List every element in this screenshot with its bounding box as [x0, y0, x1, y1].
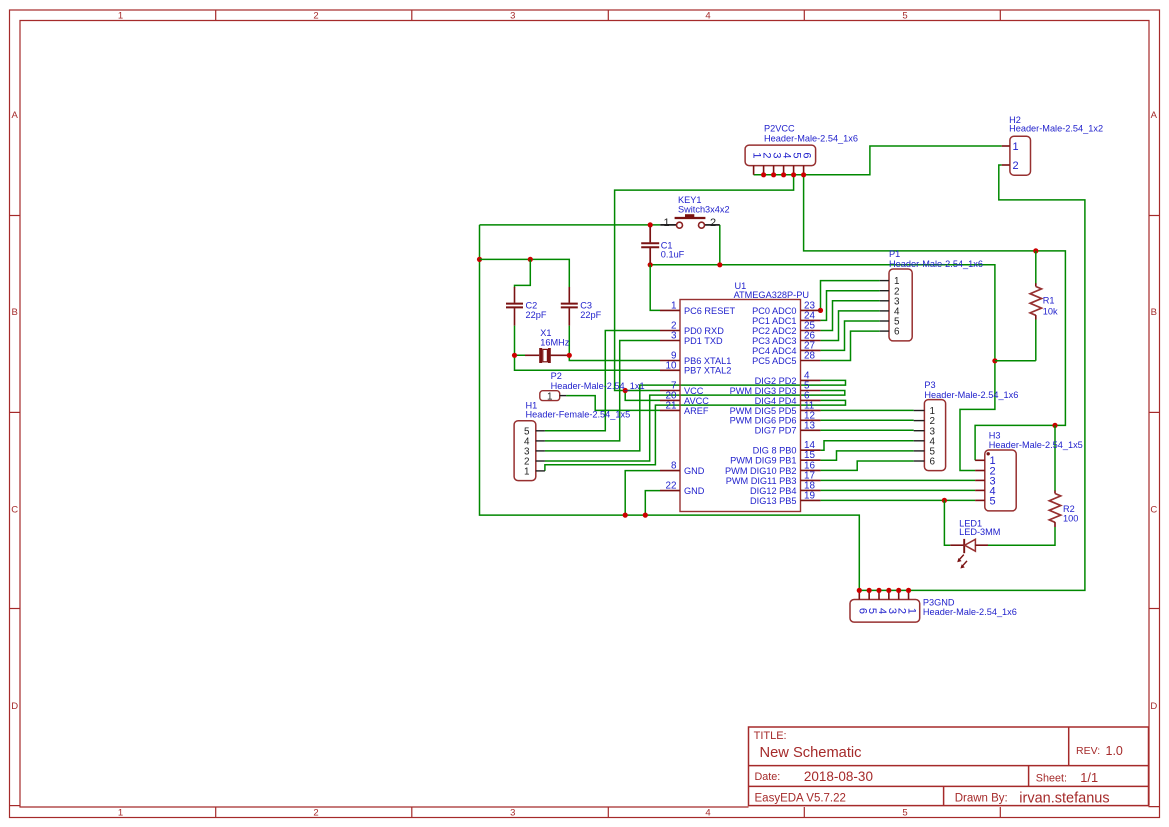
wire R2 top lead connection [1054, 425, 1056, 491]
svg-text:PWM DIG3 PD3: PWM DIG3 PD3 [730, 386, 797, 396]
svg-text:Drawn By:: Drawn By: [955, 792, 1008, 804]
U1 right pin names [725, 306, 796, 506]
svg-text:C2: C2 [526, 300, 538, 310]
svg-text:Header-Female-2.54_1x5: Header-Female-2.54_1x5 [526, 410, 631, 420]
svg-text:PC1 ADC1: PC1 ADC1 [752, 316, 796, 326]
KEY1 right lead and terminal [699, 222, 720, 228]
svg-text:D: D [1150, 701, 1157, 712]
svg-text:5: 5 [902, 10, 907, 21]
capacitor C3 symbol [561, 287, 578, 326]
wire U1 pin 23 to P1 pin 1 [821, 281, 880, 311]
capacitor C2 symbol [506, 287, 523, 326]
wire U1 pin 12 to P3 pin 2 [821, 419, 914, 421]
H3 pin-1 marker dot [987, 452, 990, 455]
svg-text:D: D [11, 701, 18, 712]
wire RESET to R1 bottom [995, 320, 1036, 361]
svg-text:1: 1 [671, 300, 677, 311]
svg-text:PWM DIG11 PB3: PWM DIG11 PB3 [726, 476, 797, 486]
svg-text:100: 100 [1063, 514, 1078, 524]
svg-text:Header-Male-2.54_1x5: Header-Male-2.54_1x5 [989, 440, 1083, 450]
svg-text:DIG13 PB5: DIG13 PB5 [750, 496, 796, 506]
svg-text:22: 22 [666, 481, 677, 492]
header P1 body [889, 269, 912, 341]
P3GND pin stubs [859, 590, 908, 599]
wire TXD from U1 pin 3 to H1 pin 4 [545, 341, 660, 441]
svg-text:DIG2 PD2: DIG2 PD2 [755, 376, 797, 386]
svg-text:PC2 ADC2: PC2 ADC2 [752, 326, 796, 336]
svg-text:PC5 ADC5: PC5 ADC5 [752, 356, 796, 366]
wire VCC branch to U1 pin 20 AVCC [625, 391, 660, 401]
svg-text:PC0 ADC0: PC0 ADC0 [752, 306, 796, 316]
wire oscillator cap top rail to C3 [480, 259, 570, 287]
wire RXD from U1 pin 2 to H1 pin 5 [545, 331, 660, 431]
wire U1 pin 27 to P1 pin 5 [821, 321, 880, 350]
header P3GND body [850, 600, 920, 623]
wire U1 pin 14 to P3 pin 4 [821, 441, 914, 450]
wire AREF from P2 to U1 pin 21 [566, 396, 660, 411]
junction DIG13 at LED branch [942, 498, 947, 503]
H3 pin numbers 1-5 [990, 455, 996, 507]
svg-text:DIG 8 PB0: DIG 8 PB0 [753, 446, 797, 456]
svg-text:10k: 10k [1043, 307, 1058, 317]
svg-text:1: 1 [118, 807, 123, 818]
junction X1 right [567, 353, 572, 358]
svg-text:PWM DIG6 PD6: PWM DIG6 PD6 [730, 416, 797, 426]
svg-text:PC3 ADC3: PC3 ADC3 [752, 336, 796, 346]
svg-text:6: 6 [801, 152, 813, 158]
svg-text:13: 13 [804, 420, 815, 431]
svg-text:Header-Male-2.54_1x6: Header-Male-2.54_1x6 [924, 390, 1018, 400]
svg-text:8: 8 [671, 461, 677, 472]
svg-text:1.0: 1.0 [1106, 744, 1123, 758]
wire RESET net horizontal below C1 [650, 265, 995, 471]
svg-text:2: 2 [313, 10, 318, 21]
svg-text:VCC: VCC [684, 386, 704, 396]
crystal X1 symbol [525, 348, 569, 363]
svg-text:P1: P1 [889, 249, 900, 259]
resistor R1 symbol [1030, 283, 1041, 319]
wire DIG2 from U1 pin 4 to H1 pin 3 [545, 380, 846, 451]
svg-text:AREF: AREF [684, 406, 709, 416]
svg-text:1: 1 [524, 467, 530, 478]
svg-text:4: 4 [705, 10, 710, 21]
header H2 body [1010, 136, 1031, 175]
svg-text:22pF: 22pF [580, 310, 601, 320]
P2VCC pin stubs [754, 166, 804, 175]
junction RESET at KEY1 drop [717, 262, 722, 267]
svg-text:DIG12 PB4: DIG12 PB4 [750, 486, 796, 496]
LED1 emission arrows [957, 555, 967, 569]
svg-text:0.1uF: 0.1uF [661, 249, 685, 259]
svg-text:1: 1 [906, 608, 918, 614]
svg-text:AVCC: AVCC [684, 396, 709, 406]
svg-text:4: 4 [705, 807, 710, 818]
wire U1 pin 8 GND to rail [625, 471, 660, 515]
svg-text:New Schematic: New Schematic [760, 745, 862, 761]
wire U1 pin 15 to P3 pin 5 [821, 451, 914, 460]
svg-text:10: 10 [666, 360, 677, 371]
svg-text:1/1: 1/1 [1080, 770, 1098, 785]
H1 pin numbers 5-1 [524, 426, 530, 477]
svg-text:PWM DIG5 PD5: PWM DIG5 PD5 [730, 406, 797, 416]
svg-text:R1: R1 [1043, 296, 1055, 306]
P1 pin stubs [880, 281, 889, 332]
wire R1 top lead connection [1035, 251, 1037, 284]
svg-text:irvan.stefanus: irvan.stefanus [1019, 791, 1109, 807]
svg-text:C3: C3 [580, 300, 592, 310]
svg-text:PWM DIG10 PB2: PWM DIG10 PB2 [725, 466, 796, 476]
svg-text:1: 1 [547, 391, 553, 402]
junctions on P2VCC pins 2-6 [761, 172, 806, 177]
svg-text:C: C [11, 505, 18, 516]
wire C3 bottom to X1 right and U1 pin 9 [569, 326, 660, 361]
U1 left pin stubs [660, 310, 680, 490]
svg-text:Header-Male-2.54_1x2: Header-Male-2.54_1x2 [1009, 124, 1103, 134]
svg-text:6: 6 [894, 327, 900, 338]
U1 left pin numbers [666, 300, 677, 491]
svg-text:ATMEGA328P-PU: ATMEGA328P-PU [734, 290, 809, 300]
svg-text:16MHz: 16MHz [540, 337, 570, 347]
wire C2 bottom to X1 left and U1 pin 10 [515, 326, 661, 371]
P3GND pin numbers 6-1 (rotated) [856, 608, 917, 614]
wire U1 pin 16 to P3 pin 6 [821, 461, 914, 470]
wire U1 pin 25 to P1 pin 3 [821, 301, 880, 331]
svg-text:PD0 RXD: PD0 RXD [684, 326, 724, 336]
H1 pin stubs [536, 431, 545, 471]
junction VCC at R2 branch [1052, 423, 1057, 428]
svg-text:TITLE:: TITLE: [754, 730, 787, 742]
junction RESET at C1 bottom [648, 262, 653, 267]
IC U1 ATMEGA328P-PU body [680, 300, 801, 512]
svg-text:R2: R2 [1063, 504, 1075, 514]
resistor R2 symbol [1049, 491, 1060, 528]
LED LED1 symbol [950, 539, 988, 553]
svg-text:19: 19 [804, 490, 815, 501]
svg-text:5: 5 [902, 807, 907, 818]
wire U1 pin 11 to P3 pin 1 [821, 409, 914, 411]
svg-text:1: 1 [663, 217, 669, 229]
wire U1 pin 22 GND to rail [645, 491, 660, 515]
P1 pin numbers 1-6 [894, 276, 900, 338]
svg-text:X1: X1 [540, 328, 551, 338]
svg-text:B: B [1151, 307, 1157, 318]
wire U1 pin 18 to H3 pin 4 [821, 489, 976, 491]
svg-text:21: 21 [666, 400, 677, 411]
svg-text:H3: H3 [989, 430, 1001, 440]
P3 pin numbers 1-6 [930, 406, 936, 468]
wire U1 pin 24 to P1 pin 2 [821, 291, 880, 321]
wire RESET to U1 pin 1 [650, 265, 660, 311]
svg-text:LED-3MM: LED-3MM [959, 527, 1000, 537]
U1 left pin names [684, 306, 735, 496]
P2VCC pin numbers 1-6 (rotated) [751, 152, 813, 158]
wire U1 pin 19 to H3 pin 5 [821, 499, 976, 501]
header P2 body [540, 391, 560, 401]
svg-text:P3: P3 [924, 380, 935, 390]
svg-text:Header-Male-2.54_1x6: Header-Male-2.54_1x6 [889, 259, 983, 269]
wire left VCC rail and bottom GND rail [480, 225, 860, 591]
wire GND bus from P3GND to H2 pin 2 [859, 165, 1085, 590]
wire U1 pin 13 to P3 pin 3 [821, 429, 914, 431]
svg-text:P2: P2 [551, 371, 562, 381]
svg-text:B: B [12, 307, 18, 318]
junction X1 left [512, 353, 517, 358]
svg-text:2: 2 [710, 217, 716, 229]
wire VCC from P2VCC pin 6 to R1 top, R2 top and H3 pin 1 [804, 175, 1066, 461]
junction VCC at U1 pin 7 branch [623, 388, 628, 393]
header P3 body [924, 400, 945, 471]
svg-text:GND: GND [684, 486, 705, 496]
svg-text:2: 2 [313, 807, 318, 818]
svg-text:1: 1 [1013, 141, 1019, 153]
junction GND rail pin 22 [643, 513, 648, 518]
junction GND rail pin 8 [623, 513, 628, 518]
junction RESET at R1 bottom branch [992, 358, 997, 363]
svg-text:2018-08-30: 2018-08-30 [804, 769, 873, 784]
wire VCC bridge from P2VCC pins to H2 pin 1 [754, 146, 1002, 175]
svg-text:Header-Male-2.54_1x6: Header-Male-2.54_1x6 [923, 607, 1017, 617]
wire U1 pin 17 to H3 pin 3 [821, 479, 976, 481]
junction VCC at R1 top [1033, 248, 1038, 253]
svg-text:3: 3 [671, 331, 677, 342]
svg-text:Header-Male-2.54_1x1: Header-Male-2.54_1x1 [551, 381, 645, 391]
junction cap rail at C2 branch [528, 257, 533, 262]
KEY1 left lead and terminal [660, 222, 682, 228]
svg-text:PC6 RESET: PC6 RESET [684, 306, 735, 316]
svg-text:Header-Male-2.54_1x6: Header-Male-2.54_1x6 [764, 134, 858, 144]
svg-text:Sheet:: Sheet: [1036, 773, 1067, 785]
wire KEY1 pin 2 drop [719, 225, 721, 265]
svg-text:EasyEDA V5.7.22: EasyEDA V5.7.22 [755, 792, 846, 804]
svg-text:P2VCC: P2VCC [764, 124, 795, 134]
svg-text:PB7 XTAL2: PB7 XTAL2 [684, 366, 731, 376]
header H3 body [985, 450, 1016, 511]
svg-text:DIG4 PD4: DIG4 PD4 [755, 396, 797, 406]
svg-text:PWM DIG9 PB1: PWM DIG9 PB1 [730, 456, 796, 466]
junction at U1 pin 23 [818, 308, 823, 313]
P3 pin stubs [914, 411, 925, 462]
svg-text:Switch3x4x2: Switch3x4x2 [678, 205, 730, 215]
H2 pin stubs [1002, 146, 1010, 165]
capacitor C1 symbol [641, 227, 659, 264]
wire RESET horizontal to KEY1 and C1 [480, 224, 661, 226]
header H1 body [514, 421, 536, 481]
svg-text:3: 3 [510, 10, 515, 21]
junction left rail to oscillator caps [477, 257, 482, 262]
svg-text:C: C [1150, 505, 1157, 516]
P2 pin stub [560, 395, 566, 397]
svg-text:A: A [12, 110, 19, 121]
junctions on P3GND pins [857, 588, 911, 593]
H3 pin stubs [975, 460, 985, 500]
wire DIG4 from U1 pin 6 to H1 pin 1 [545, 400, 846, 471]
svg-text:GND: GND [684, 466, 705, 476]
svg-text:1: 1 [118, 10, 123, 21]
KEY1 actuator bar [675, 214, 706, 218]
svg-text:Date:: Date: [755, 771, 781, 783]
wire DIG3 from U1 pin 5 to H1 pin 2 [545, 391, 845, 462]
svg-text:5: 5 [990, 495, 996, 507]
svg-text:PB6 XTAL1: PB6 XTAL1 [684, 356, 731, 366]
svg-text:6: 6 [930, 457, 936, 468]
wire cap rail branch to C2 [515, 259, 531, 287]
wire U1 pin 28 to P1 pin 6 [821, 331, 880, 360]
wire VCC from P2VCC pin 5 to U1 pin 7 VCC [615, 175, 794, 391]
wire LED1 cathode to R2 bottom [988, 527, 1055, 545]
header P2VCC body [745, 145, 816, 166]
svg-text:DIG7 PD7: DIG7 PD7 [755, 426, 797, 436]
svg-text:2: 2 [1013, 160, 1019, 172]
svg-text:22pF: 22pF [526, 310, 547, 320]
svg-text:28: 28 [804, 351, 815, 362]
svg-text:PD1 TXD: PD1 TXD [684, 336, 723, 346]
U1 right pin numbers [804, 300, 815, 501]
U1 right pin stubs [801, 310, 821, 500]
H2 pin numbers [1013, 141, 1019, 172]
svg-text:3: 3 [510, 807, 515, 818]
wire LED1 anode from DIG13 [944, 500, 950, 545]
svg-text:A: A [1151, 110, 1158, 121]
wire U1 pin 26 to P1 pin 4 [821, 311, 880, 341]
svg-text:PC4 ADC4: PC4 ADC4 [752, 346, 796, 356]
junction RESET at C1 top / KEY1 pin 1 [648, 222, 653, 227]
svg-text:REV:: REV: [1076, 745, 1100, 757]
